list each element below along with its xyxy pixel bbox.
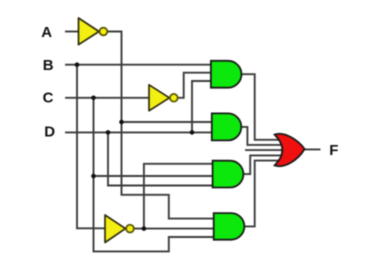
OR gate (output F) <box>275 134 305 166</box>
wire B' riser to AND3 input 1 <box>144 164 216 229</box>
svg-text:F: F <box>329 142 338 159</box>
AND gate 1 (top) <box>211 61 242 88</box>
wire AND1 output to OR input 1 <box>240 74 284 140</box>
wire OR output to F <box>304 148 320 150</box>
wire NOT1 output to A' vertical <box>108 32 122 123</box>
node D junction <box>106 130 111 135</box>
wire C vertical down <box>94 98 217 252</box>
wire AND3 output to OR input 4 <box>242 155 284 174</box>
wire D riser to AND1 input 3 <box>192 81 216 132</box>
node A' junction <box>119 120 124 125</box>
wire A' vertical continues to AND4 input 1 <box>122 122 217 219</box>
wire input C rail to NOT2 input <box>66 97 151 99</box>
node C junction <box>91 96 96 101</box>
wire input D rail to AND2 input 2 <box>66 131 216 133</box>
wire A' branch to AND2 input 1 <box>122 121 217 123</box>
svg-text:C: C <box>43 89 54 106</box>
svg-text:D: D <box>44 124 55 141</box>
wire D branch down to AND3 input 3 <box>108 132 216 185</box>
AND gate 2 <box>212 113 241 140</box>
AND gate 3 <box>213 161 244 188</box>
wire AND4 output to OR input 5 <box>243 161 284 227</box>
wire input A stub <box>66 31 80 33</box>
node D riser junction <box>190 130 195 135</box>
wire C branch to AND3 input 2 <box>94 175 217 177</box>
inverter NOT1 (input A) <box>79 18 108 45</box>
node B' junction <box>142 226 147 231</box>
inverter NOT2 (input C) <box>149 85 178 111</box>
svg-text:B: B <box>43 57 54 74</box>
AND gate 4 <box>214 213 245 240</box>
node C-AND3 junction <box>91 174 96 179</box>
wire OR unused middle input stub <box>246 149 285 151</box>
svg-text:A: A <box>41 24 52 41</box>
wire NOT3 output to AND4 input 2 <box>134 228 216 230</box>
wire AND2 output to OR input 2 <box>240 127 284 145</box>
wire B vertical to NOT3 input <box>77 65 107 229</box>
wire NOT2 output riser to AND1 input 2 <box>178 73 216 98</box>
inverter NOT3 (input B) <box>105 215 134 243</box>
node B junction <box>75 62 80 67</box>
wire input B rail to AND1 input 1 <box>66 64 216 66</box>
